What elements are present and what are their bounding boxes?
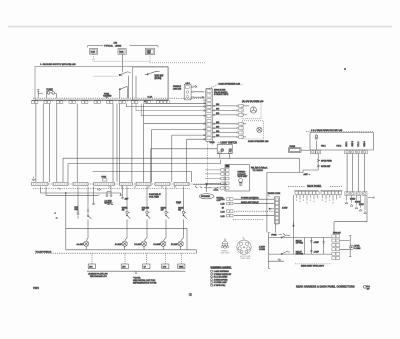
capacitor C2 xyxy=(322,240,325,243)
svg-text:TYPICAL LINKS: TYPICAL LINKS xyxy=(104,45,122,48)
connector circles bottom xyxy=(310,150,367,154)
svg-text:REAR VIEW: REAR VIEW xyxy=(241,257,251,260)
wire V9 xyxy=(131,104,133,183)
dashed horizontal y61 xyxy=(94,60,151,62)
lamp E xyxy=(171,228,184,250)
wire E6 xyxy=(172,135,206,182)
wire V3 xyxy=(48,104,50,183)
g_connector : round connector pinout xyxy=(237,237,251,260)
wire V7 xyxy=(116,104,118,183)
switch RADIO xyxy=(161,187,170,229)
svg-text:SIDE VIEW: SIDE VIEW xyxy=(221,253,230,255)
strip bottom feeds xyxy=(207,142,209,184)
svg-text:LPS: LPS xyxy=(163,266,167,268)
right connector group xyxy=(345,192,367,196)
rail feed wire xyxy=(65,193,67,250)
left fuse above bus2 xyxy=(32,177,36,181)
terminal blocks row xyxy=(32,101,170,104)
svg-text:IGN: IGN xyxy=(120,52,124,54)
wire V8 xyxy=(119,104,121,183)
inner grid xyxy=(294,238,332,255)
power antenna line xyxy=(234,198,274,200)
wire V6 xyxy=(112,104,114,183)
svg-text:4.7MF: 4.7MF xyxy=(314,242,320,244)
line 3 xyxy=(234,210,274,212)
svg-text:7373: 7373 xyxy=(33,286,39,290)
capacitor C3 xyxy=(310,249,313,252)
wire V1 xyxy=(35,104,37,183)
svg-text:1-4B: 1-4B xyxy=(221,204,226,206)
svg-text:DASH SPEAKER 14B: DASH SPEAKER 14B xyxy=(248,140,269,143)
svg-text:1-4A: 1-4A xyxy=(221,198,226,201)
junction from deck feed xyxy=(293,225,294,226)
svg-text:SW: SW xyxy=(142,209,145,211)
g_spk : speaker dashed box xyxy=(212,121,269,143)
ground rail xyxy=(66,249,197,251)
svg-text:B RED: B RED xyxy=(350,199,356,201)
g_switchrow : row of switches under bus2 xyxy=(56,187,187,229)
wire V5 xyxy=(76,104,78,183)
radio label dashed xyxy=(251,166,265,168)
svg-text:LPS: LPS xyxy=(122,266,126,268)
svg-text:PIN 1: PIN 1 xyxy=(321,146,326,148)
svg-text:4-WAY: 4-WAY xyxy=(282,206,288,209)
wire V4 xyxy=(56,104,58,183)
svg-text:SPKR FEED: SPKR FEED xyxy=(321,160,332,162)
svg-text:B BLK: B BLK xyxy=(359,204,365,206)
lamp L xyxy=(221,149,224,152)
svg-text:RED 4: RED 4 xyxy=(364,141,366,146)
radio ant relay line xyxy=(234,203,274,205)
region box xyxy=(35,67,168,100)
svg-text:PPL 3: PPL 3 xyxy=(358,142,360,147)
strip A xyxy=(295,190,319,192)
g_deckpanel : deck panel connector strips xyxy=(288,185,374,234)
switch HTR FAN xyxy=(142,187,151,229)
column to block wire xyxy=(275,224,277,233)
wire from deck to right xyxy=(334,196,367,235)
line 4 xyxy=(234,215,274,217)
svg-text:UP PWR: UP PWR xyxy=(296,243,304,245)
g_defrost : rear window defroster box xyxy=(267,129,374,232)
g_captions xyxy=(33,68,370,296)
L-wires left xyxy=(41,187,121,194)
g_vwires : long vertical wires bus1 to bus2 xyxy=(36,104,132,183)
connector columns xyxy=(332,235,340,260)
svg-text:DASH SPEAKER 14B: DASH SPEAKER 14B xyxy=(219,82,241,85)
svg-text:4.7MF: 4.7MF xyxy=(314,251,320,253)
g_ign : ignition switch box xyxy=(94,67,169,100)
wire dashed below B3 xyxy=(149,55,151,63)
wire H1 xyxy=(63,158,300,182)
wire E4 xyxy=(144,104,206,124)
capacitor C1 xyxy=(310,239,313,243)
ground line under boxes xyxy=(87,271,186,273)
resistor R1 xyxy=(77,187,79,219)
g_botboxes : bottom connector boxes xyxy=(87,253,186,284)
left sub box wires xyxy=(129,76,136,98)
connector columns inside xyxy=(221,169,229,190)
svg-text:1-4C: 1-4C xyxy=(221,211,226,213)
svg-text:SW: SW xyxy=(122,209,125,211)
svg-text:TRNK: TRNK xyxy=(179,266,184,268)
bottom label xyxy=(295,263,331,265)
svg-text:LINK 14B: LINK 14B xyxy=(173,88,182,90)
feed wire 1 with switch xyxy=(269,237,294,239)
strip B xyxy=(321,190,343,192)
radio feed wires xyxy=(205,170,221,188)
svg-text:3 A-C BLOWER: 3 A-C BLOWER xyxy=(214,276,228,279)
enclosure top wire xyxy=(93,171,192,182)
svg-text:1 AMP ANTENNA: 1 AMP ANTENNA xyxy=(214,270,230,273)
wire H3 xyxy=(68,160,221,182)
svg-text:COIL FEED: COIL FEED xyxy=(149,196,160,198)
g_cluster : small harness cluster icon xyxy=(221,239,230,255)
svg-text:BLK 1: BLK 1 xyxy=(346,142,348,147)
svg-text:SPEAKER: SPEAKER xyxy=(201,195,211,198)
svg-text:AMP →: AMP → xyxy=(304,173,311,176)
g_gnd : ground supply region box xyxy=(35,63,205,100)
wire E1 xyxy=(126,104,205,107)
lamp C xyxy=(134,228,147,250)
g_top : bracket and fuse boxes xyxy=(88,42,159,72)
bracket xyxy=(88,46,159,48)
cap right xyxy=(121,187,124,199)
g_elbows : wires from bus area to connector strip xyxy=(126,104,205,183)
g_column : rear harness connector column xyxy=(268,193,289,232)
svg-text:(RUN): (RUN) xyxy=(155,77,162,80)
svg-text:↳ GROUND SUPPLY (SPLICE) 14B: ↳ GROUND SUPPLY (SPLICE) 14B xyxy=(40,63,76,66)
tiny mark top right xyxy=(344,68,345,69)
left bracket xyxy=(269,233,271,269)
g_bus1 : main upper bus xyxy=(32,96,206,104)
wire H2 xyxy=(151,149,217,182)
wires down from defroster xyxy=(347,154,365,192)
svg-text:RADIO ANT RELAY: RADIO ANT RELAY xyxy=(241,201,259,204)
g_lamps : indicator lamp row xyxy=(35,228,196,253)
svg-text:TAPE UNIT: TAPE UNIT xyxy=(238,175,249,178)
speaker mute oval xyxy=(199,194,214,199)
fan motor xyxy=(250,107,256,113)
g_bus2 : second bus xyxy=(32,177,228,188)
wire V2 xyxy=(42,104,44,183)
svg-text:REAR SEAT SPKR ASSY: REAR SEAT SPKR ASSY xyxy=(301,265,325,268)
stub terminal xyxy=(37,90,43,99)
diode symbol xyxy=(59,188,102,191)
wire E2 xyxy=(136,104,206,111)
svg-text:FUSE: FUSE xyxy=(176,202,182,204)
svg-text:T.P. RADIO: T.P. RADIO xyxy=(253,169,264,172)
svg-text:LP: LP xyxy=(144,266,147,268)
svg-text:E-LAMP: E-LAMP xyxy=(171,243,179,246)
svg-text:7A 2B: 7A 2B xyxy=(210,141,216,144)
svg-text:SW: SW xyxy=(161,209,164,211)
svg-text:3 2 1 REAR WINDOW DEF 14B: 3 2 1 REAR WINDOW DEF 14B xyxy=(311,129,343,132)
g_legend : numbers legend xyxy=(211,267,233,287)
wire E3 xyxy=(141,104,205,116)
svg-text:8-TRACK TAPE: 8-TRACK TAPE xyxy=(214,93,229,96)
ignition switch contact xyxy=(145,71,160,74)
g_fuseL : left fuse xyxy=(37,88,112,98)
svg-text:CONN: CONN xyxy=(259,249,265,251)
g_light : light switch box xyxy=(210,141,238,158)
svg-text:B GRN: B GRN xyxy=(355,201,361,203)
svg-text:D-LAMP: D-LAMP xyxy=(154,243,162,246)
g_hbundle : long horizontal wires center xyxy=(63,149,300,188)
fuse box B1 xyxy=(90,49,98,55)
wire stubs xyxy=(92,187,111,205)
feed wire 2 with switch xyxy=(269,253,294,255)
g_radio : radio/tape unit xyxy=(213,165,268,192)
terminal circles below bus2 xyxy=(109,186,176,188)
svg-text:PWR ANT: PWR ANT xyxy=(333,232,341,235)
svg-text:C-LAMP: C-LAMP xyxy=(134,243,142,246)
svg-text:6-4A: 6-4A xyxy=(148,96,153,99)
wire E7 xyxy=(187,139,206,182)
switch DOME xyxy=(178,187,187,229)
connector rows xyxy=(227,198,234,217)
g_fan : heater fan dashed box xyxy=(212,101,264,119)
pin labels vertical xyxy=(346,141,366,147)
wire below B2 xyxy=(121,54,123,72)
svg-text:GRN 2: GRN 2 xyxy=(352,141,354,147)
svg-text:a: a xyxy=(55,212,57,214)
svg-text:4 REAR SPKRS: 4 REAR SPKRS xyxy=(214,278,229,281)
svg-text:6 TAPE COLL: 6 TAPE COLL xyxy=(214,284,226,287)
wire E5 xyxy=(152,130,206,183)
strip label dashed xyxy=(211,85,243,88)
svg-text:DIV: DIV xyxy=(367,288,371,290)
inner dashed xyxy=(94,75,119,77)
speaker SP1 xyxy=(340,241,350,250)
svg-text:TO LAMP FUSE 14B: TO LAMP FUSE 14B xyxy=(36,250,53,253)
svg-text:W/LUGGAGE LPS: W/LUGGAGE LPS xyxy=(90,275,107,278)
svg-text:B-LAMP: B-LAMP xyxy=(115,243,123,246)
lamp R xyxy=(229,149,232,152)
pigtails below strips xyxy=(297,195,367,214)
g_belowbus2 : area under second bus xyxy=(33,187,190,250)
svg-text:DN PWR: DN PWR xyxy=(296,254,304,256)
svg-text:FUSE: FUSE xyxy=(271,234,277,236)
svg-text:2 WNDW DEFROST: 2 WNDW DEFROST xyxy=(214,274,232,276)
g_strip : main connector strip (ladder) xyxy=(204,82,244,184)
lamp feed bus xyxy=(66,228,187,250)
g_mute : mute relay + speaker oval xyxy=(193,184,274,220)
speaker feed down-left xyxy=(267,154,318,233)
antenna ground mark xyxy=(213,187,218,190)
svg-text:TRUNK CONN: TRUNK CONN xyxy=(268,193,281,195)
lamp B xyxy=(115,228,127,250)
fold line xyxy=(8,26,392,28)
LED symbol inside xyxy=(315,135,319,151)
svg-text:DECK PANEL: DECK PANEL xyxy=(307,185,322,188)
wire E4 drop xyxy=(143,124,145,182)
switch WIPER xyxy=(122,187,131,229)
fuse box B3 xyxy=(145,48,154,54)
g_fusiblelink : component right of ignition box xyxy=(173,82,204,100)
svg-text:LPS: LPS xyxy=(89,266,93,268)
svg-text:POWER ANTENNA: POWER ANTENNA xyxy=(241,197,259,200)
wire dashed below B1 xyxy=(92,54,94,60)
svg-text:REFRIGERATION TYPES: REFRIGERATION TYPES xyxy=(133,281,157,284)
svg-text:8 OHM: 8 OHM xyxy=(354,248,360,250)
lamp A xyxy=(77,228,89,250)
center page mark xyxy=(189,293,192,296)
svg-text:1-4D: 1-4D xyxy=(221,216,226,218)
switch SW-A xyxy=(87,187,92,229)
svg-text:5 DOME LAMP: 5 DOME LAMP xyxy=(214,281,228,284)
fuse box B2 xyxy=(118,49,126,55)
svg-text:PIN 2: PIN 2 xyxy=(337,146,342,148)
svg-text:REAR HARNESS & DASH PANEL CONN: REAR HARNESS & DASH PANEL CONNECTORS xyxy=(296,286,355,289)
speaker symbol xyxy=(257,127,262,132)
switch S2 xyxy=(120,87,128,98)
line with diamond xyxy=(270,208,275,210)
svg-text:MOTOR: MOTOR xyxy=(105,203,112,205)
lower diode wire xyxy=(269,259,285,262)
g_block : bottom-right power antenna assembly xyxy=(259,222,361,268)
switch S1 xyxy=(120,72,131,75)
svg-text:SPKR RET: SPKR RET xyxy=(321,166,331,168)
svg-text:A-LAMP: A-LAMP xyxy=(77,243,85,246)
svg-text:14B: 14B xyxy=(114,42,118,44)
svg-text:SW: SW xyxy=(178,209,181,211)
dashed line under bus2 xyxy=(33,188,190,190)
caps pair xyxy=(106,194,113,197)
lamp D xyxy=(154,228,167,250)
small marks xyxy=(107,202,113,205)
